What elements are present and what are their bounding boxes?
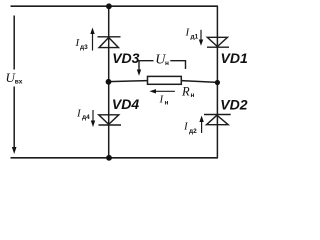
svg-text:д1: д1: [191, 34, 199, 41]
svg-text:н: н: [165, 60, 169, 67]
diode VD3: [98, 37, 121, 48]
svg-text:н: н: [191, 92, 195, 99]
svg-text:н: н: [165, 100, 169, 107]
svg-text:вх: вх: [15, 79, 23, 86]
node right mid junction: [215, 80, 220, 85]
resistor Rн: [148, 76, 182, 84]
current arrow Iд4: [91, 110, 95, 127]
svg-text:д4: д4: [82, 114, 90, 121]
current arrow Iд3: [90, 28, 94, 51]
diode VD4: [99, 115, 122, 125]
svg-text:д2: д2: [189, 128, 197, 135]
svg-text:VD3: VD3: [112, 50, 139, 66]
node top junction: [106, 3, 112, 9]
svg-text:VD4: VD4: [112, 96, 139, 112]
voltage arrow Uвх: [12, 16, 17, 155]
node left mid junction: [106, 79, 112, 85]
svg-text:д3: д3: [80, 44, 88, 51]
svg-text:R: R: [181, 85, 190, 99]
current arrow Iд2: [199, 116, 203, 134]
diode VD2: [204, 115, 231, 125]
wire load left segment: [109, 81, 148, 82]
wire right branch: [216, 6, 218, 158]
current arrow Iн: [150, 89, 175, 93]
wire left branch: [108, 6, 110, 158]
wire top rail: [11, 5, 219, 7]
svg-text:VD1: VD1: [221, 50, 248, 66]
voltage bracket Uн: [137, 61, 186, 76]
node bottom junction: [106, 155, 112, 161]
wire bottom rail: [11, 157, 219, 159]
current arrow Iд1: [199, 30, 203, 46]
svg-text:VD2: VD2: [220, 96, 247, 112]
wire load right segment: [181, 81, 217, 83]
diode VD1: [207, 37, 229, 47]
